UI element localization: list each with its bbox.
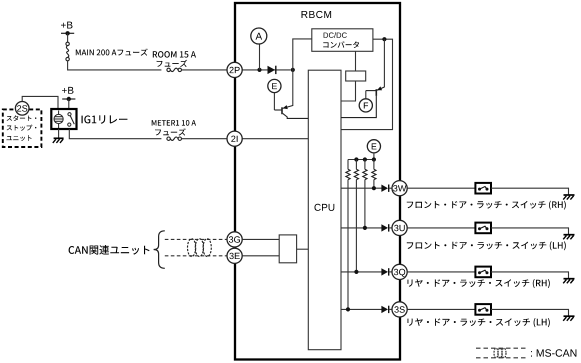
connector pin 3Q xyxy=(392,264,407,279)
ground switch 3S xyxy=(563,316,574,321)
CAN transceiver box xyxy=(279,235,296,263)
wire pin 2P to node xyxy=(242,69,291,71)
label switch 3S xyxy=(408,318,550,327)
connector pin 3S xyxy=(392,302,407,317)
wire switch 3Q to ground xyxy=(491,272,569,279)
wire CAN-L dashed xyxy=(165,255,227,257)
label switch 3U xyxy=(407,241,566,250)
fuse ROOM 15A xyxy=(167,68,182,71)
label METER1 10 A fuse line1 xyxy=(152,120,196,126)
legend MS-CAN wire top xyxy=(476,347,526,349)
door latch switch 3Q xyxy=(475,267,491,278)
wire node E to base Q1 xyxy=(273,93,275,110)
wire 3G to CAN transceiver xyxy=(242,238,279,240)
label start-stop unit line1 xyxy=(7,115,37,121)
relay IG1 switch contact xyxy=(68,113,75,127)
wire diode to pin 3U xyxy=(389,227,392,229)
wire bus to resistor R4 xyxy=(347,160,349,170)
connector pin 2I xyxy=(227,131,242,146)
connector pin 2S xyxy=(15,102,29,116)
resistor (box) under DC/DC xyxy=(346,71,366,81)
label CAN related units xyxy=(69,245,150,255)
wire pin 3S to switch xyxy=(407,308,475,310)
label start-stop unit line2 xyxy=(7,125,37,131)
resistor R3 xyxy=(354,169,358,179)
fuse METER1 10A xyxy=(167,137,182,140)
node E (right) xyxy=(367,140,380,153)
transistor Q2 xyxy=(341,86,384,117)
wire resistor R1 to row 3W xyxy=(373,180,375,189)
+B battery terminal (second) xyxy=(62,87,75,101)
wire bus to resistor R3 xyxy=(355,160,357,170)
legend twisted pair symbol xyxy=(494,348,506,358)
label ROOM 15 A fuse line1 xyxy=(153,51,196,58)
ground relay coil xyxy=(53,138,64,143)
resistor R4 xyxy=(346,169,350,179)
diode D1 xyxy=(268,66,276,74)
junction after diode D1 xyxy=(291,68,295,72)
wire CPU to diode 3W xyxy=(341,187,382,189)
wire CPU to diode 3S xyxy=(341,308,382,310)
wire CAN transceiver to CPU xyxy=(297,248,309,250)
wire resistor R4 to row 3S xyxy=(347,180,349,310)
+B battery terminal (top) xyxy=(61,22,74,36)
junction DC/DC output xyxy=(382,37,386,41)
junction row 3W xyxy=(372,186,376,190)
bus junction 3 xyxy=(372,157,376,161)
wire resistor R3 to row 3Q xyxy=(355,180,357,272)
junction row 3Q xyxy=(354,270,358,274)
label switch 3Q xyxy=(408,279,550,288)
legend MS-CAN text xyxy=(531,349,576,356)
wire collector Q1 xyxy=(292,70,294,106)
wire 2S to relay coil xyxy=(22,96,58,110)
wire CAN-H dashed xyxy=(165,238,227,240)
relay IG1 box xyxy=(51,109,76,129)
label MAIN 200 A fuse xyxy=(76,49,148,56)
legend MS-CAN wire bottom xyxy=(476,357,526,359)
ground switch 3U xyxy=(563,235,574,240)
wire switch 3U to ground xyxy=(491,228,569,235)
diode row 3Q xyxy=(381,268,388,275)
label IG1 relay xyxy=(82,115,128,124)
wire METER1 fuse to pin 2I xyxy=(182,138,228,140)
node F xyxy=(359,99,372,112)
door latch switch 3W xyxy=(475,183,491,194)
transistor Q1 xyxy=(274,105,308,118)
wire node E to resistor bus xyxy=(373,153,375,160)
wire junction up to DC/DC input xyxy=(293,39,312,70)
wire ROOM fuse to pin 2P xyxy=(182,69,228,71)
wire relay to METER1 fuse xyxy=(69,129,161,139)
CPU box xyxy=(308,70,341,350)
label ROOM fuse line2 xyxy=(157,60,188,67)
connector pin 3U xyxy=(392,220,407,235)
wire base Q2 to node F xyxy=(365,91,367,99)
wire relay coil to ground xyxy=(58,129,60,138)
bus junction 1 xyxy=(354,157,358,161)
junction row 3U xyxy=(363,226,367,230)
wire pin 3Q to switch xyxy=(407,271,475,273)
RBCM label xyxy=(302,11,332,18)
wire pin 2I to CPU xyxy=(242,138,308,140)
wire collector Q2 xyxy=(383,39,385,87)
connector pin 3E xyxy=(227,248,242,263)
door latch switch 3S xyxy=(475,304,491,315)
door latch switch 3U xyxy=(475,223,491,234)
twisted pair symbol xyxy=(188,239,212,257)
wire node A drop xyxy=(259,44,261,70)
wire diode to pin 3Q xyxy=(389,271,392,273)
connector pin 3W xyxy=(392,181,407,196)
wire +B to relay switch xyxy=(68,99,70,110)
node A xyxy=(251,28,267,44)
wire +B to MAIN fuse xyxy=(67,33,69,42)
fuse MAIN 200A (fusible link) xyxy=(66,42,69,61)
wire CPU to diode 3U xyxy=(341,227,382,229)
diode row 3S xyxy=(381,306,388,313)
junction row 3S xyxy=(346,307,350,311)
wire switch 3S to ground xyxy=(491,309,569,316)
wire bus to resistor R2 xyxy=(364,160,366,170)
wire pin 3W to switch xyxy=(407,187,475,189)
wire diode to pin 3S xyxy=(389,308,392,310)
wire DC/DC to resistor xyxy=(355,51,357,71)
wire pin 3U to switch xyxy=(407,227,475,229)
wire DC/DC output right xyxy=(341,39,393,129)
diode row 3W xyxy=(381,185,388,192)
diode row 3U xyxy=(381,224,388,231)
wire diode to pin 3W xyxy=(389,187,392,189)
wire switch 3W to ground xyxy=(491,188,569,195)
start-stop unit dashed box xyxy=(3,109,42,147)
brace for CAN units xyxy=(154,231,165,268)
DC/DC converter box xyxy=(312,29,373,52)
wire 3E to CAN transceiver xyxy=(242,255,279,257)
wire MAIN fuse to ROOM fuse xyxy=(68,61,162,70)
bus junction 2 xyxy=(363,157,367,161)
resistor R1 xyxy=(372,169,376,179)
label start-stop unit line3 xyxy=(7,135,32,141)
ground switch 3W xyxy=(563,195,574,200)
CPU label xyxy=(315,204,335,211)
relay IG1 coil xyxy=(54,111,63,129)
resistor bus xyxy=(348,159,374,161)
connector pin 3G xyxy=(227,232,242,247)
DC/DC label line2 xyxy=(323,41,359,48)
wire resistor R2 to row 3U xyxy=(364,180,366,228)
wire CPU to diode 3Q xyxy=(341,271,382,273)
wire resistor to CPU xyxy=(341,81,356,101)
ground switch 3Q xyxy=(563,279,574,284)
DC/DC label line1 xyxy=(324,32,347,38)
node E (left) xyxy=(268,79,281,92)
resistor R2 xyxy=(363,169,367,179)
wire bus to resistor R1 xyxy=(373,160,375,170)
junction below node A xyxy=(257,68,261,72)
label METER1 fuse line2 xyxy=(155,128,186,135)
RBCM module box xyxy=(235,3,400,360)
connector pin 2P xyxy=(227,62,242,77)
label switch 3W xyxy=(407,201,566,210)
